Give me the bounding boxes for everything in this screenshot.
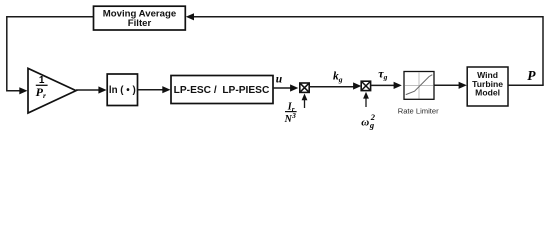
label tau_g — [378, 66, 387, 81]
arrowhead into gain triangle — [19, 87, 27, 94]
svg-text:N3: N3 — [284, 111, 297, 125]
wire u (LP-ESC to multiplier M1) — [273, 87, 291, 89]
svg-text:kg: kg — [333, 71, 343, 84]
arrowhead into Wind Turbine Model — [459, 82, 467, 89]
multiplier M2 — [361, 81, 370, 90]
svg-text:P: P — [527, 68, 536, 83]
block Wind Turbine Model — [467, 67, 508, 106]
multiplier M1 — [300, 83, 309, 92]
wire ln to LP-ESC — [138, 89, 163, 91]
wire kg (M1 to M2) — [309, 86, 353, 88]
arrowhead into LP-ESC — [162, 86, 170, 93]
label kg — [333, 71, 343, 84]
arrowhead into Rate Limiter — [394, 82, 402, 89]
label Rate Limiter — [398, 106, 439, 115]
gain block 1/Pr (triangle) — [28, 68, 76, 113]
label wg2 — [361, 112, 376, 130]
label P — [527, 68, 536, 83]
wire Rate Limiter to Wind Turbine Model — [434, 84, 459, 86]
block ln(.) — [107, 74, 137, 106]
rate limiter curve — [406, 75, 433, 95]
arrowhead into M1 — [290, 84, 298, 91]
arrowhead into Moving Average Filter — [186, 13, 194, 20]
wire gain to ln block — [76, 89, 99, 91]
block LP-ESC / LP-PIESC — [171, 76, 273, 104]
arrow Ir/N3 into M1 bottom — [302, 94, 308, 109]
wire tau_g (M2 to Rate Limiter) — [371, 84, 394, 86]
svg-text:Filter: Filter — [128, 18, 152, 29]
label u — [276, 74, 283, 86]
svg-text:ωg2: ωg2 — [361, 112, 376, 130]
svg-text:ln ( • ): ln ( • ) — [109, 85, 136, 96]
svg-text:Rate Limiter: Rate Limiter — [398, 106, 439, 115]
block Rate Limiter — [404, 72, 434, 100]
arrow wg2 into M2 bottom — [363, 92, 369, 107]
block Moving Average Filter — [94, 6, 186, 30]
wire MAF output left and down to gain input — [7, 17, 94, 91]
wire P output — [508, 84, 544, 86]
svg-text:Model: Model — [475, 88, 500, 98]
arrowhead into M2 — [353, 82, 361, 89]
svg-text:LP-ESC / LP-PIESC: LP-ESC / LP-PIESC — [174, 85, 270, 96]
svg-text:u: u — [276, 74, 283, 86]
label 1/Pr — [36, 75, 48, 100]
arrowhead into ln block — [98, 86, 106, 93]
label Ir/N3 — [284, 101, 297, 125]
svg-text:τg: τg — [378, 66, 387, 81]
wire feedback top right (P up and across) — [193, 17, 544, 86]
